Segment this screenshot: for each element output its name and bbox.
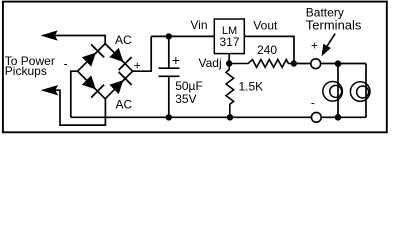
node: adj junction	[226, 60, 232, 66]
node: + rail junction	[335, 60, 342, 67]
wire: cap bottom lead	[168, 76, 170, 117]
svg-text:Terminals: Terminals	[306, 17, 362, 32]
svg-text:Vadj: Vadj	[199, 56, 222, 70]
node: 1.5K bottom junction	[227, 114, 233, 120]
diode D2 top-right arm (anode at AC top, cathode toward +)	[111, 49, 132, 70]
wire: cap top lead	[168, 36, 170, 68]
wire: top rail to LM317 Vin	[151, 35, 214, 37]
wire: top pickup lead to bridge AC top	[47, 36, 105, 44]
svg-text:35V: 35V	[175, 92, 196, 106]
arrow: pointer to battery terminal	[322, 34, 335, 55]
svg-text:Vin: Vin	[190, 18, 207, 32]
regulator U1 LM317	[214, 19, 244, 54]
svg-text:AC: AC	[115, 33, 132, 47]
capacitor C1 50uF 35V	[159, 68, 180, 76]
svg-text:AC: AC	[116, 97, 133, 111]
svg-text:+: +	[311, 38, 318, 52]
svg-text:317: 317	[219, 35, 239, 49]
battery post left (wire loop)	[323, 82, 343, 102]
arrow to power pickups (bottom)	[43, 86, 57, 94]
arrow to power pickups (top)	[43, 32, 57, 40]
svg-text:Vout: Vout	[253, 19, 278, 33]
terminal + (open circle)	[311, 59, 321, 69]
svg-text:+: +	[172, 52, 180, 68]
wire: output node to + terminal and right post	[294, 63, 366, 65]
diode D3 bottom-left arm (anode at -, cathode toward AC bottom)	[83, 77, 104, 98]
node: filter cap top junction	[166, 33, 172, 39]
resistor R2 1.5K	[226, 64, 234, 118]
wire: left post drop (+ to post)	[337, 64, 339, 118]
svg-text:240: 240	[257, 43, 277, 57]
svg-text:-: -	[311, 95, 315, 109]
wire: adj pin down	[228, 54, 230, 64]
svg-text:1.5K: 1.5K	[239, 80, 264, 94]
svg-text:Pickups: Pickups	[5, 64, 47, 78]
border frame	[3, 2, 387, 133]
wire: Vout to output node	[244, 36, 294, 63]
battery post right (wire loop)	[350, 82, 370, 102]
wire: bridge negative to bottom rail	[71, 71, 78, 117]
diode D1 top-left arm (anode at -, cathode toward AC top)	[83, 44, 104, 65]
diode D4 bottom-right arm (anode at AC bottom, cathode toward +)	[111, 72, 132, 93]
svg-text:-: -	[64, 56, 68, 70]
resistor R1 240	[229, 60, 294, 68]
wire: right post drop	[365, 64, 367, 118]
node: - rail junction	[335, 114, 342, 121]
wire: bottom pickup lead to bridge AC bottom	[47, 90, 105, 125]
node: output junction	[291, 60, 297, 66]
bridge rectifier diamond	[78, 44, 133, 99]
wire: bottom rail	[71, 116, 366, 118]
terminal - (open circle)	[311, 112, 321, 122]
svg-text:50µF: 50µF	[175, 79, 203, 93]
node: cap bottom junction	[166, 114, 172, 120]
wire: bridge positive up to top rail	[133, 36, 152, 71]
